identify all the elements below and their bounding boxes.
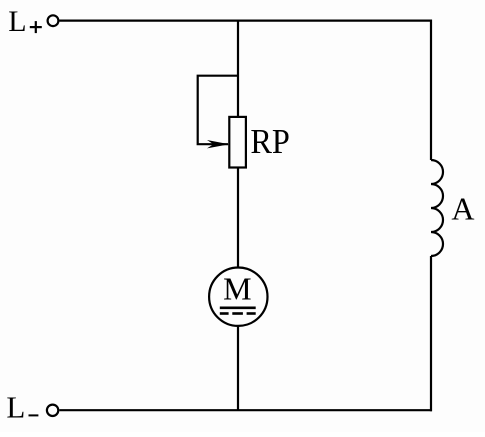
wire right upper xyxy=(430,20,432,160)
DC symbol solid line xyxy=(220,306,256,309)
svg-text:L: L xyxy=(6,389,25,424)
inductor A xyxy=(431,160,443,256)
potentiometer RP body xyxy=(229,117,246,168)
DC symbol dash 1 xyxy=(220,312,229,315)
DC symbol dash 3 xyxy=(247,312,256,315)
svg-text:M: M xyxy=(223,270,251,306)
wire bottom xyxy=(59,409,432,411)
terminal L- xyxy=(47,405,58,416)
wire middle upper xyxy=(237,20,239,117)
svg-text:RP: RP xyxy=(250,122,290,161)
DC symbol dash 2 xyxy=(232,312,243,315)
potentiometer wiper arrow head xyxy=(207,140,229,148)
wire right lower xyxy=(430,256,432,411)
terminal L+ xyxy=(48,15,59,26)
wire top xyxy=(59,20,432,22)
wire middle lower xyxy=(237,326,239,410)
svg-text:L: L xyxy=(8,5,26,38)
wire middle mid xyxy=(237,168,239,269)
motor M circle xyxy=(209,268,267,326)
svg-text:A: A xyxy=(451,191,474,227)
potentiometer wiper wire xyxy=(198,76,238,145)
